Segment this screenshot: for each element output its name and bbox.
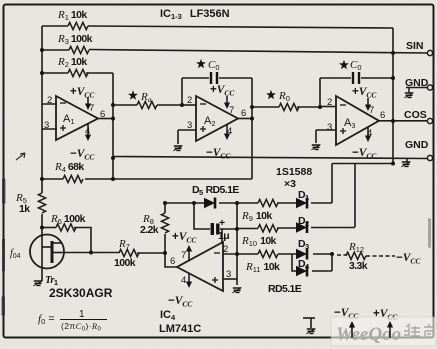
svg-text:4: 4 (367, 128, 372, 139)
svg-text:3.3k: 3.3k (349, 260, 368, 272)
svg-text:3: 3 (44, 120, 49, 131)
svg-text:×3: ×3 (284, 178, 296, 190)
svg-text:100k: 100k (114, 257, 136, 269)
svg-text:2.2k: 2.2k (140, 224, 159, 236)
svg-text:GND: GND (405, 139, 429, 151)
svg-text:2: 2 (47, 95, 52, 106)
svg-text:7: 7 (369, 105, 374, 116)
svg-text:6: 6 (100, 109, 105, 120)
svg-text:R210k: R210k (57, 56, 87, 69)
svg-text:4: 4 (85, 126, 90, 137)
svg-text:4: 4 (181, 275, 186, 286)
svg-text:SIN: SIN (406, 40, 424, 52)
svg-text:2: 2 (223, 244, 228, 255)
svg-text:1μ: 1μ (218, 230, 229, 242)
svg-text:6: 6 (380, 110, 385, 121)
svg-text:COS: COS (404, 109, 427, 121)
svg-text:IC1-3LF356N: IC1-3LF356N (160, 8, 230, 21)
svg-text:1k: 1k (19, 203, 30, 215)
svg-text:7: 7 (181, 250, 186, 261)
svg-text:7: 7 (229, 105, 234, 116)
svg-text:3: 3 (226, 269, 231, 280)
svg-text:R6100k: R6100k (50, 213, 86, 226)
svg-text:+: + (219, 217, 225, 229)
svg-text:RD5.1E: RD5.1E (268, 283, 302, 295)
svg-text:2SK30AGR: 2SK30AGR (49, 286, 113, 300)
svg-text:R468k: R468k (54, 161, 84, 174)
svg-text:R910k: R910k (241, 210, 272, 223)
svg-text:7: 7 (89, 103, 94, 114)
svg-text:R110k: R110k (57, 9, 87, 22)
svg-text:3: 3 (327, 122, 332, 133)
svg-text:6: 6 (241, 108, 246, 119)
svg-text:LM741C: LM741C (159, 323, 201, 335)
svg-text:2: 2 (187, 95, 192, 106)
svg-text:1: 1 (79, 309, 85, 320)
svg-text:GND: GND (405, 77, 429, 89)
svg-text:6: 6 (170, 256, 175, 267)
svg-text:3: 3 (187, 120, 192, 131)
svg-text:2: 2 (327, 97, 332, 108)
svg-text:1S1588: 1S1588 (276, 166, 312, 178)
svg-text:4: 4 (227, 126, 232, 137)
svg-text:(2πC0)·R0: (2πC0)·R0 (61, 321, 102, 333)
svg-text:R3100k: R3100k (57, 33, 93, 46)
